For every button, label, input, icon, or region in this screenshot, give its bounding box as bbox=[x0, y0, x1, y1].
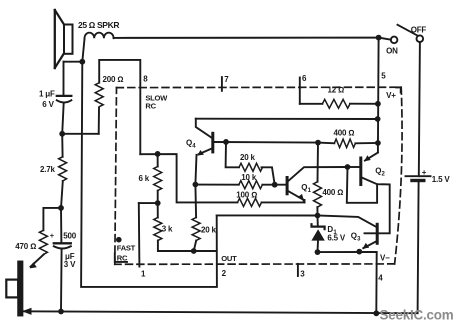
svg-text:FAST: FAST bbox=[117, 243, 136, 252]
svg-text:12 Ω: 12 Ω bbox=[328, 85, 345, 94]
svg-text:20 k: 20 k bbox=[201, 225, 217, 234]
svg-text:3 V: 3 V bbox=[64, 260, 76, 269]
svg-text:3: 3 bbox=[300, 269, 305, 278]
svg-text:2: 2 bbox=[222, 269, 227, 278]
svg-text:5: 5 bbox=[381, 71, 386, 80]
svg-text:OUT: OUT bbox=[221, 254, 237, 263]
svg-text:ON: ON bbox=[386, 47, 398, 56]
svg-text:8: 8 bbox=[143, 75, 148, 84]
svg-text:200 Ω: 200 Ω bbox=[103, 75, 124, 84]
svg-text:RC: RC bbox=[117, 253, 128, 262]
svg-text:Q: Q bbox=[375, 166, 381, 175]
svg-text:OFF: OFF bbox=[411, 25, 427, 34]
svg-text:470 Ω: 470 Ω bbox=[15, 242, 36, 251]
svg-text:2.7k: 2.7k bbox=[40, 165, 56, 174]
svg-text:Q: Q bbox=[351, 231, 357, 240]
svg-text:7: 7 bbox=[224, 75, 229, 84]
svg-text:Q: Q bbox=[301, 183, 307, 192]
svg-text:RC: RC bbox=[145, 102, 156, 111]
svg-text:V+: V+ bbox=[386, 91, 396, 100]
svg-text:6 V: 6 V bbox=[42, 100, 54, 109]
svg-text:+: + bbox=[422, 168, 427, 177]
svg-text:Q: Q bbox=[186, 138, 192, 147]
svg-text:6 k: 6 k bbox=[139, 174, 150, 183]
svg-text:SeekIC.com: SeekIC.com bbox=[380, 308, 454, 323]
svg-text:3 k: 3 k bbox=[162, 225, 173, 234]
svg-text:+: + bbox=[50, 231, 55, 240]
svg-text:400 Ω: 400 Ω bbox=[334, 129, 355, 138]
svg-text:500: 500 bbox=[63, 231, 76, 240]
svg-text:1.5 V: 1.5 V bbox=[432, 175, 451, 184]
svg-text:1 μF: 1 μF bbox=[39, 89, 55, 98]
svg-text:4: 4 bbox=[378, 273, 383, 282]
svg-text:6.5 V: 6.5 V bbox=[327, 234, 346, 243]
svg-text:400 Ω: 400 Ω bbox=[322, 188, 343, 197]
svg-text:100 Ω: 100 Ω bbox=[236, 191, 257, 200]
svg-text:V−: V− bbox=[380, 253, 390, 262]
svg-text:20 k: 20 k bbox=[240, 153, 256, 162]
svg-text:10 k: 10 k bbox=[241, 173, 257, 182]
svg-text:25 Ω SPKR: 25 Ω SPKR bbox=[78, 20, 119, 30]
